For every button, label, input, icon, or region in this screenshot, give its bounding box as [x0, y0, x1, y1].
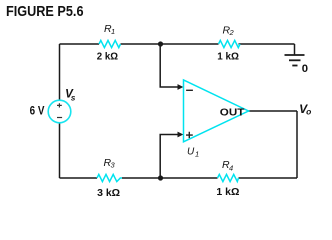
arrowhead into noninverting input — [178, 132, 184, 138]
op-amp minus sign — [186, 89, 193, 91]
wire left vertical (source to top) — [59, 44, 61, 100]
resistor R1 zigzag — [99, 40, 121, 47]
svg-text:s: s — [71, 93, 76, 102]
arrowhead into inverting input — [178, 84, 184, 90]
wire right vertical (output to bottom) — [296, 111, 298, 178]
op-amp plus sign — [186, 132, 193, 138]
wire left vertical (source to bottom) — [59, 123, 61, 178]
wire bottom horizontal right of R3 — [122, 177, 218, 179]
resistor R2 zigzag — [219, 40, 241, 47]
svg-text:2 kΩ: 2 kΩ — [97, 51, 118, 62]
svg-text:1 kΩ: 1 kΩ — [216, 187, 239, 198]
svg-text:1 kΩ: 1 kΩ — [217, 51, 239, 62]
wire inverting input feed (from top node down and right) — [160, 44, 178, 87]
node junction dot bottom — [158, 175, 163, 180]
wire noninverting input feed (from bottom node up and right) — [160, 135, 178, 179]
svg-text:0: 0 — [302, 63, 308, 75]
svg-text:6 V: 6 V — [30, 104, 45, 118]
voltage source minus sign — [57, 117, 62, 119]
svg-text:2: 2 — [229, 28, 235, 37]
svg-text:3 kΩ: 3 kΩ — [97, 188, 120, 199]
voltage source plus sign — [57, 103, 62, 107]
svg-text:o: o — [306, 107, 311, 117]
ground symbol — [285, 44, 305, 66]
svg-text:OUT: OUT — [220, 108, 245, 119]
wire top horizontal left of R1 — [60, 43, 100, 45]
svg-text:1: 1 — [111, 27, 115, 36]
wire top horizontal right of R2 to ground corner — [239, 43, 295, 45]
svg-text:4: 4 — [229, 164, 233, 173]
resistor R3 zigzag — [97, 174, 122, 181]
wire top horizontal between R1 and R2 — [121, 43, 219, 45]
wire bottom horizontal right of R4 — [239, 177, 298, 179]
svg-text:1: 1 — [195, 149, 199, 158]
svg-text:FIGURE P5.6: FIGURE P5.6 — [6, 3, 84, 20]
node junction dot top — [158, 41, 163, 46]
wire output horizontal — [249, 110, 298, 112]
svg-text:U: U — [187, 146, 195, 157]
resistor R4 zigzag — [218, 174, 239, 181]
op-amp U1 triangle — [184, 80, 249, 142]
wire bottom horizontal left of R3 — [60, 177, 98, 179]
voltage source Vs circle — [48, 100, 71, 123]
